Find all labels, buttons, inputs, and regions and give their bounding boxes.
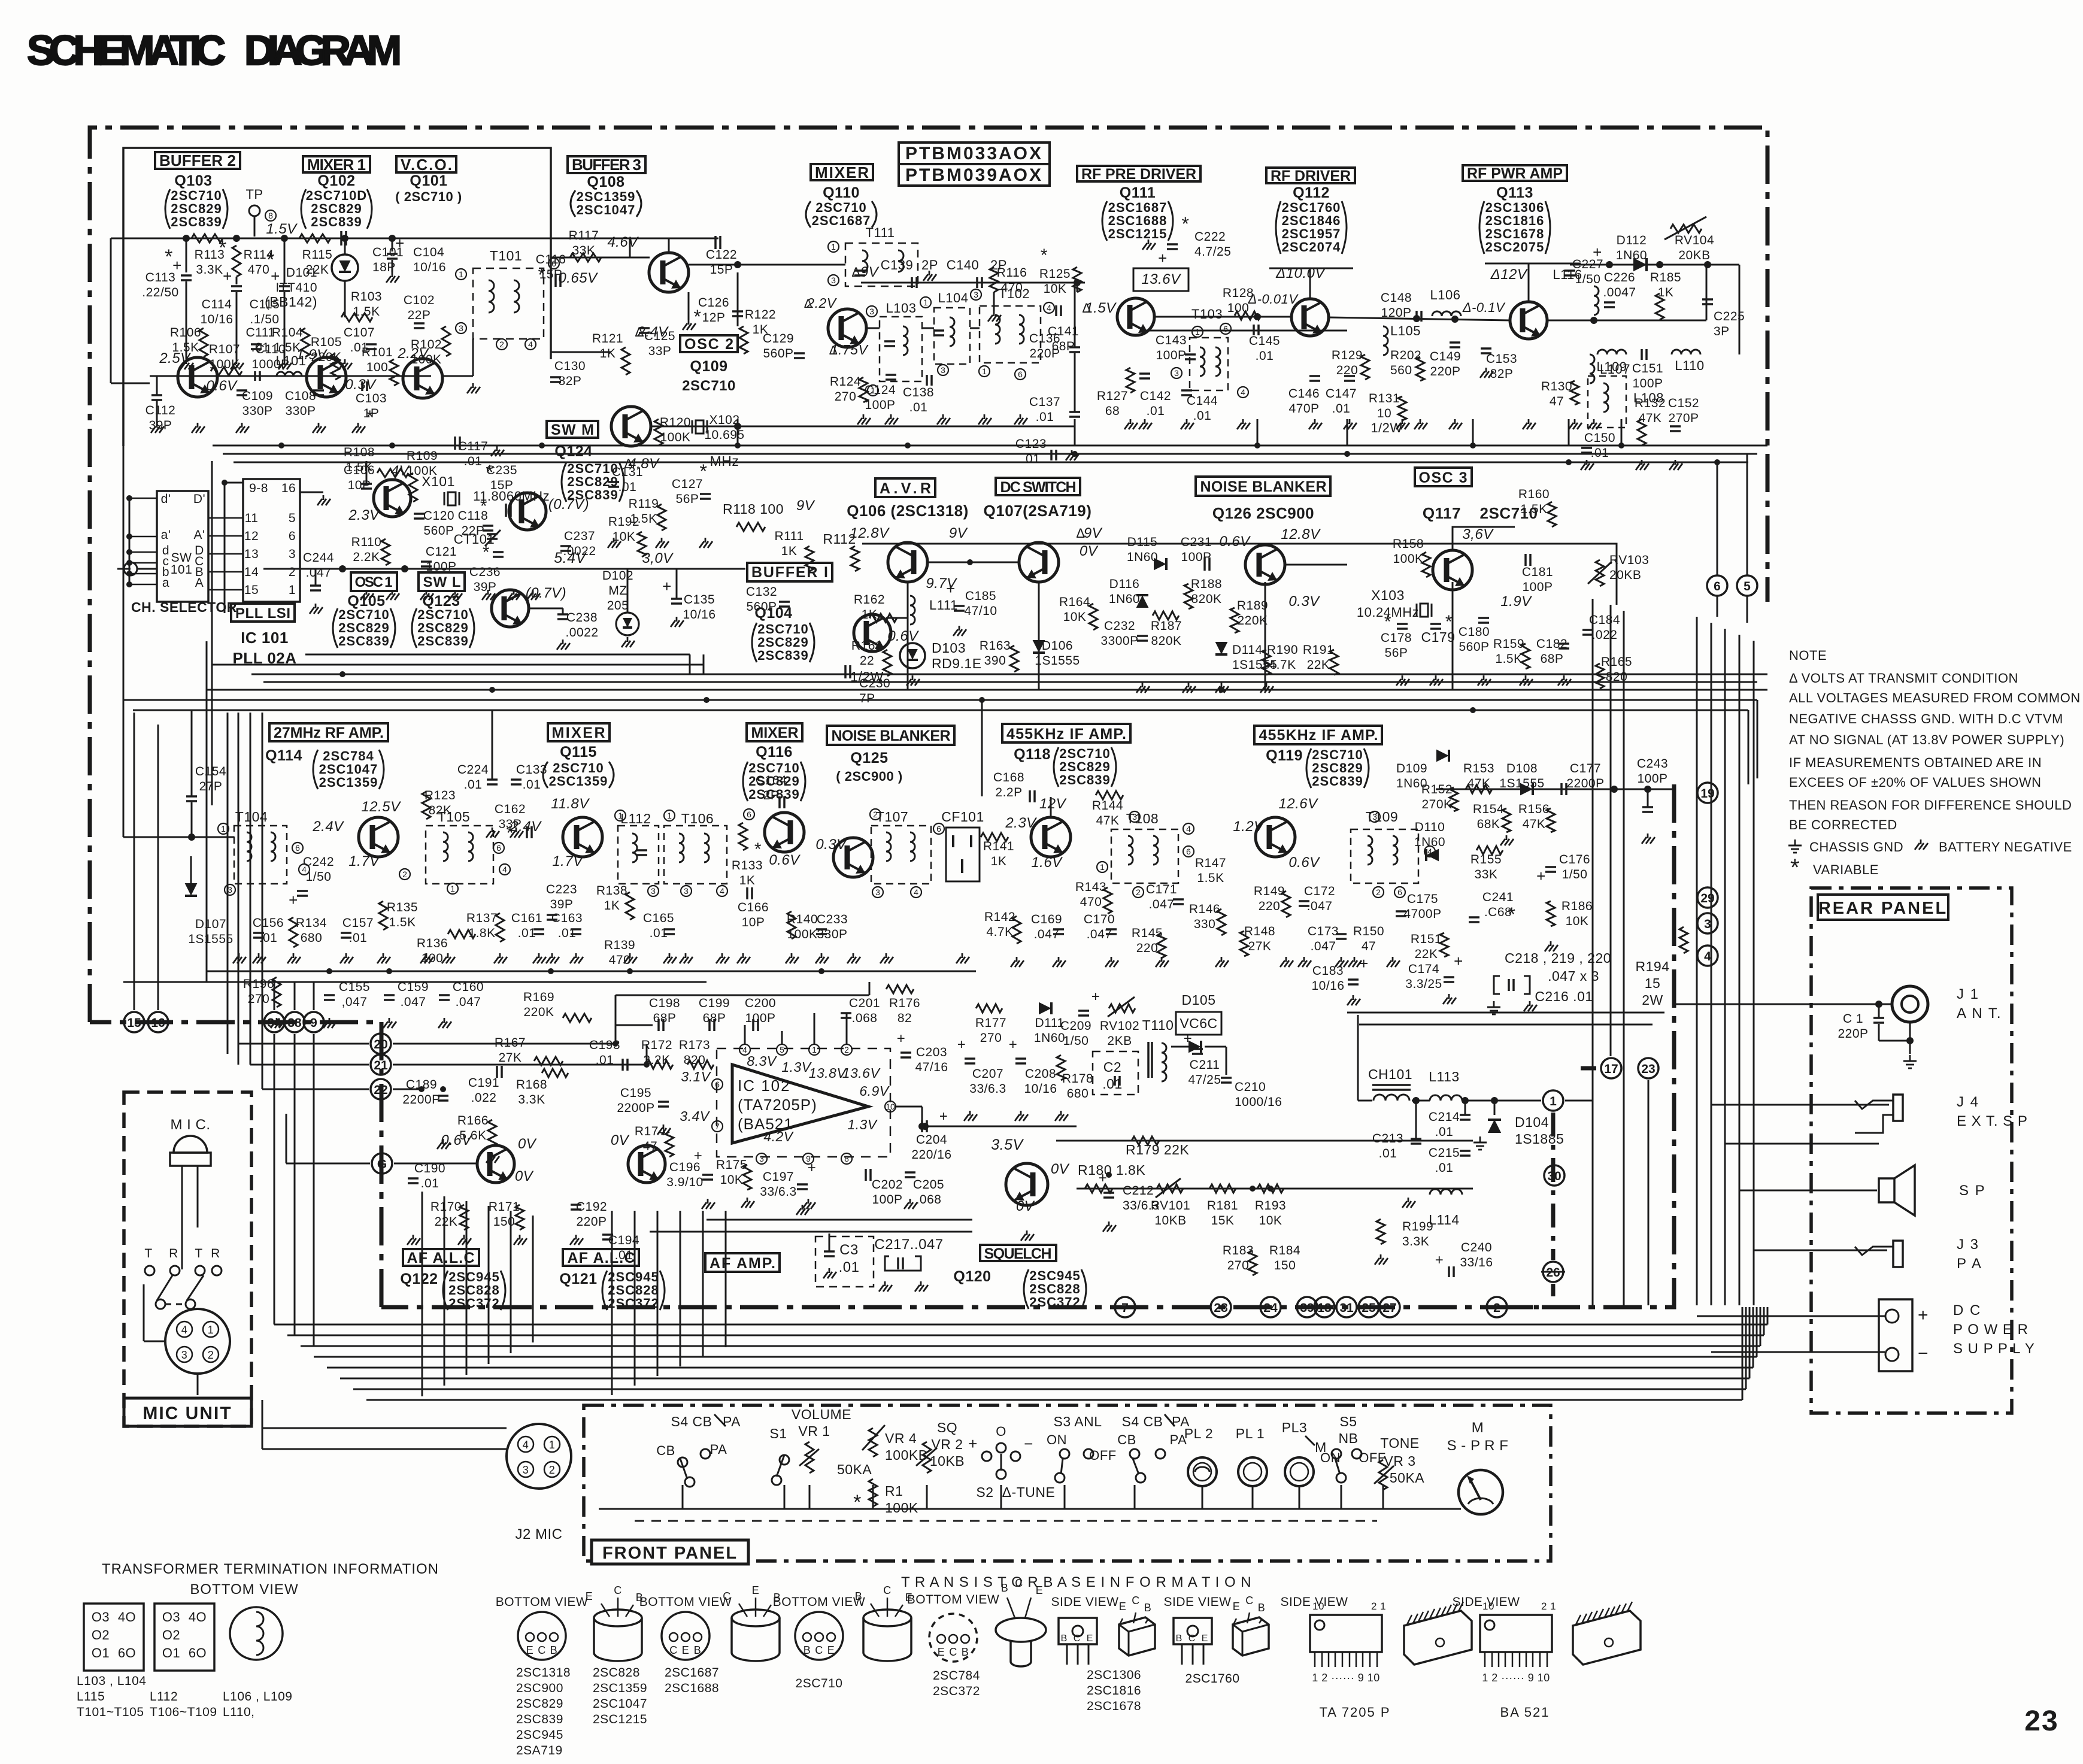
- PCB name PTBM039AOX: [899, 164, 1050, 186]
- svg-text:C: C: [1132, 1595, 1140, 1607]
- svg-text:+: +: [1918, 1305, 1929, 1325]
- capacitor C3 (dashed): [815, 1236, 874, 1287]
- svg-text:R156: R156: [1518, 802, 1550, 816]
- svg-text:D': D': [193, 492, 205, 506]
- ground: [1314, 419, 1316, 424]
- wire PLL top: [225, 482, 243, 484]
- svg-text:15: 15: [244, 583, 259, 597]
- svg-text:Q107(2SA719): Q107(2SA719): [984, 502, 1092, 520]
- junction: [126, 549, 132, 555]
- svg-text:560P: 560P: [423, 524, 454, 538]
- svg-text:27K: 27K: [499, 1051, 522, 1065]
- junction: [1618, 442, 1624, 448]
- svg-text:*: *: [853, 1491, 862, 1514]
- svg-text:2P: 2P: [921, 257, 938, 272]
- svg-text:R194: R194: [1636, 959, 1670, 974]
- svg-text:2SC839: 2SC839: [171, 214, 222, 229]
- ground: [1016, 957, 1018, 962]
- svg-text:RF DRIVER: RF DRIVER: [1271, 168, 1351, 184]
- svg-text:R187: R187: [1151, 619, 1182, 633]
- transistor Q118: [1031, 817, 1071, 857]
- svg-text:10: 10: [886, 1102, 895, 1111]
- ground: [186, 359, 187, 364]
- svg-text:47/16: 47/16: [915, 1060, 948, 1074]
- svg-text:VC6C: VC6C: [1180, 1016, 1217, 1031]
- svg-text:7: 7: [1121, 1301, 1129, 1315]
- wire under RF power to circled 6 5: [1717, 462, 1718, 575]
- ground: [1435, 675, 1437, 680]
- svg-text:390: 390: [984, 654, 1006, 668]
- svg-text:C152: C152: [1668, 396, 1699, 410]
- svg-text:23: 23: [1641, 1062, 1655, 1076]
- svg-text:+: +: [808, 1160, 817, 1176]
- svg-text:C157: C157: [342, 916, 374, 930]
- ground: [383, 953, 384, 958]
- ground: [538, 953, 540, 958]
- wire ic102 pins down: [744, 1025, 746, 1044]
- svg-text:MIXER: MIXER: [815, 163, 869, 181]
- svg-text:6: 6: [289, 529, 296, 543]
- svg-text:1K: 1K: [739, 874, 756, 887]
- ground: [532, 590, 534, 595]
- svg-text:3.3K: 3.3K: [196, 263, 223, 277]
- inductor L108: [1588, 376, 1626, 428]
- svg-text:12.5V: 12.5V: [361, 799, 401, 815]
- package TO-220 3d b: [1233, 1617, 1269, 1656]
- svg-text:TP: TP: [245, 187, 263, 202]
- svg-text:0V: 0V: [1080, 543, 1099, 559]
- ground: [442, 1139, 444, 1144]
- svg-text:C113: C113: [145, 271, 176, 284]
- svg-text:BUFFER 3: BUFFER 3: [572, 156, 641, 174]
- svg-text:D101: D101: [286, 266, 317, 280]
- wire: [1257, 419, 1259, 445]
- wire avr to dc switch: [927, 562, 1019, 563]
- svg-text:+: +: [172, 256, 182, 274]
- package cylinder 2: [732, 1610, 780, 1626]
- svg-text:A N T.: A N T.: [1957, 1005, 2002, 1022]
- svg-text:R202: R202: [1390, 348, 1421, 362]
- wire j2 mic feeds: [262, 1427, 507, 1429]
- svg-text:2.5V: 2.5V: [159, 350, 191, 366]
- wire: [287, 1335, 1764, 1336]
- svg-text:C184: C184: [1589, 613, 1620, 627]
- wire q109 row: [551, 351, 611, 353]
- svg-text:47: 47: [1362, 939, 1376, 953]
- svg-text:100P: 100P: [1181, 550, 1211, 564]
- svg-text:Q115: Q115: [560, 744, 597, 760]
- wire: [1452, 582, 1454, 690]
- svg-text:1.5K: 1.5K: [630, 512, 657, 526]
- svg-text:D107: D107: [195, 917, 226, 931]
- svg-text:10/16: 10/16: [413, 260, 446, 274]
- svg-text:C: C: [614, 1584, 622, 1596]
- svg-text:PL 1: PL 1: [1236, 1426, 1265, 1441]
- svg-text:1S1555: 1S1555: [1035, 654, 1080, 668]
- svg-text:2SC1359: 2SC1359: [549, 774, 608, 789]
- svg-text:C231: C231: [1181, 535, 1212, 549]
- wire: [1347, 419, 1348, 445]
- label MIC UNIT: [124, 1398, 251, 1426]
- svg-text:T101: T101: [490, 248, 522, 263]
- ground: [344, 359, 346, 364]
- wire: [1623, 611, 1625, 1305]
- svg-text:T102: T102: [999, 286, 1030, 301]
- package SIP 3d: [1404, 1611, 1472, 1665]
- wire q110 out: [1146, 330, 1347, 332]
- svg-text:T R A N S I S T O R B A: T R A N S I S T O R B A S E I N F O R M …: [901, 1574, 1252, 1590]
- wire audio feed risers: [615, 1025, 617, 1044]
- svg-text:E: E: [938, 1646, 945, 1658]
- ground: [276, 1018, 278, 1023]
- svg-text:5: 5: [780, 1045, 784, 1054]
- svg-text:470: 470: [609, 953, 631, 967]
- svg-text:0V: 0V: [518, 1136, 537, 1152]
- svg-text:.1/50: .1/50: [250, 313, 279, 326]
- svg-text:10P: 10P: [348, 478, 371, 492]
- svg-text:2SC839: 2SC839: [1059, 772, 1111, 787]
- svg-text:.068: .068: [852, 1011, 878, 1025]
- svg-text:39P: 39P: [474, 580, 497, 594]
- svg-text:3P: 3P: [1714, 325, 1730, 338]
- ground: [1392, 957, 1394, 962]
- svg-text:33/6.3: 33/6.3: [969, 1082, 1006, 1096]
- svg-text:2SC900: 2SC900: [516, 1681, 563, 1695]
- svg-text:*: *: [266, 248, 275, 271]
- transistor Q123: [492, 590, 529, 627]
- wire T104 in: [123, 836, 234, 838]
- svg-text:3: 3: [1174, 368, 1179, 378]
- svg-text:BOTTOM VIEW: BOTTOM VIEW: [639, 1595, 732, 1609]
- svg-text:2: 2: [499, 340, 504, 349]
- svg-text:BOTTOM VIEW: BOTTOM VIEW: [190, 1581, 298, 1598]
- svg-text:1N60: 1N60: [1109, 592, 1140, 606]
- wire: [1621, 419, 1623, 445]
- connections 6 5 top right: [1707, 575, 1727, 596]
- svg-text:12.8V: 12.8V: [850, 525, 890, 541]
- ground: [661, 538, 663, 542]
- wire q118 bias rail: [981, 700, 983, 796]
- svg-text:150: 150: [1274, 1259, 1296, 1272]
- block label NOISE BLANKER Q126: [1196, 477, 1330, 496]
- svg-text:C171: C171: [1146, 883, 1177, 896]
- svg-text:10/16: 10/16: [683, 608, 715, 622]
- connector J2 MIC: [507, 1424, 571, 1489]
- connection 28: [1211, 1297, 1231, 1317]
- svg-text:2W: 2W: [1642, 992, 1663, 1008]
- svg-text:3: 3: [181, 1349, 188, 1361]
- block label OSC 3: [1415, 468, 1472, 486]
- svg-text:C151: C151: [1632, 362, 1663, 375]
- svg-text:C133: C133: [516, 763, 547, 777]
- transistor Q102: [307, 357, 346, 397]
- svg-text:10P: 10P: [742, 916, 765, 929]
- svg-text:NOISE BLANKER: NOISE BLANKER: [832, 728, 951, 744]
- connection 39: [1297, 1297, 1317, 1317]
- svg-text:330P: 330P: [285, 404, 316, 418]
- svg-text:16: 16: [281, 481, 296, 495]
- svg-text:100K: 100K: [660, 431, 690, 444]
- block label NOISE BLANKER Q125: [827, 726, 954, 745]
- svg-text:C226: C226: [1604, 271, 1635, 284]
- svg-text:Δ-0.1V: Δ-0.1V: [1462, 300, 1506, 315]
- svg-text:.01: .01: [518, 926, 536, 940]
- svg-text:R164: R164: [1059, 595, 1090, 609]
- svg-text:(TA7205P): (TA7205P): [738, 1096, 817, 1114]
- svg-text:C205: C205: [913, 1178, 944, 1192]
- svg-text:2SC372: 2SC372: [608, 1296, 659, 1311]
- ground: [238, 953, 240, 958]
- svg-text:L113: L113: [1429, 1069, 1459, 1084]
- svg-text:C138: C138: [903, 386, 934, 399]
- wire: [1739, 635, 1741, 1305]
- svg-text:11: 11: [245, 511, 259, 525]
- svg-text:13: 13: [244, 547, 259, 561]
- ground: [984, 414, 986, 419]
- ground: [1483, 675, 1485, 680]
- svg-text:SCHEMATIC: SCHEMATIC: [27, 27, 226, 74]
- svg-text:O3: O3: [162, 1610, 180, 1624]
- svg-text:22K: 22K: [435, 1215, 458, 1229]
- svg-text:56P: 56P: [1385, 646, 1408, 660]
- junction: [489, 687, 495, 693]
- svg-text:T110: T110: [1142, 1017, 1174, 1033]
- connection 24: [1260, 1297, 1281, 1317]
- wire: [1299, 1485, 1300, 1509]
- svg-text:3: 3: [869, 307, 874, 316]
- svg-text:Q110: Q110: [823, 184, 860, 201]
- transformer package 1: [84, 1604, 144, 1671]
- svg-text:1: 1: [289, 583, 296, 597]
- svg-text:S1: S1: [769, 1426, 787, 1441]
- svg-text:101: 101: [171, 563, 193, 577]
- svg-text:D116: D116: [1109, 577, 1140, 591]
- wire: [1724, 629, 1726, 1305]
- svg-text:D112: D112: [1617, 234, 1647, 247]
- svg-text:10/16: 10/16: [1311, 979, 1344, 993]
- svg-text:d': d': [161, 492, 171, 506]
- svg-text:C: C: [815, 1644, 823, 1656]
- ground: [808, 1199, 809, 1204]
- svg-text:C172: C172: [1304, 884, 1335, 898]
- svg-text:Δ-TUNE: Δ-TUNE: [1002, 1484, 1056, 1500]
- svg-text:TONE: TONE: [1380, 1435, 1419, 1451]
- capacitor C114: [236, 277, 238, 284]
- svg-text:C185: C185: [965, 589, 996, 603]
- svg-text:33/16: 33/16: [1460, 1256, 1493, 1269]
- svg-text:C122: C122: [706, 248, 737, 262]
- junction: [627, 968, 633, 974]
- svg-text:L106 , L109: L106 , L109: [223, 1690, 292, 1704]
- svg-text:D C: D C: [1953, 1302, 1981, 1319]
- svg-text:M: M: [1472, 1420, 1484, 1436]
- svg-text:R166: R166: [457, 1114, 489, 1127]
- wire: [680, 1211, 681, 1366]
- svg-text:82: 82: [898, 1011, 912, 1025]
- svg-text:C131: C131: [612, 465, 643, 479]
- block label 455KHz IF AMP Q118: [1002, 724, 1130, 742]
- svg-text:ALL VOLTAGES MEASURED FROM COM: ALL VOLTAGES MEASURED FROM COMMON: [1789, 690, 2081, 705]
- wire top right rail: [1570, 264, 1739, 266]
- ground: [1111, 957, 1112, 962]
- svg-text:.047: .047: [456, 995, 481, 1009]
- svg-text:3.4V: 3.4V: [680, 1108, 710, 1124]
- svg-text:0V: 0V: [611, 1132, 630, 1148]
- svg-text:22: 22: [860, 654, 874, 668]
- block label RF DRIVER: [1266, 168, 1355, 183]
- svg-text:2200P: 2200P: [617, 1101, 654, 1115]
- svg-text:R106: R106: [170, 326, 201, 340]
- svg-text:.01: .01: [1332, 402, 1351, 416]
- junction: [1268, 1186, 1274, 1192]
- svg-text:6: 6: [936, 824, 941, 833]
- package SIP 3d b: [1573, 1611, 1641, 1665]
- svg-text:B C E: B C E: [1061, 1633, 1095, 1644]
- svg-text:.0022: .0022: [565, 626, 598, 639]
- wire 5.4V rail: [263, 568, 745, 570]
- svg-text:C165: C165: [643, 911, 674, 925]
- svg-text:2200P: 2200P: [402, 1093, 440, 1107]
- svg-text:BOTTOM VIEW: BOTTOM VIEW: [907, 1593, 999, 1607]
- svg-text:1.5K: 1.5K: [1520, 502, 1547, 516]
- svg-text:22K: 22K: [1415, 947, 1438, 961]
- ground: [942, 414, 944, 419]
- block label RF PWR AMP: [1463, 165, 1567, 181]
- svg-text:C210: C210: [1235, 1080, 1266, 1094]
- wire: [314, 1356, 1757, 1358]
- svg-text:*: *: [538, 264, 546, 286]
- svg-text:+: +: [939, 1108, 948, 1125]
- svg-text:2SC839: 2SC839: [311, 214, 362, 229]
- svg-text:2SC372: 2SC372: [933, 1684, 980, 1698]
- wire bus to 20/21/22: [238, 1043, 369, 1045]
- svg-text:REAR PANEL: REAR PANEL: [1818, 899, 1948, 918]
- svg-text:S4 CB: S4 CB: [1122, 1414, 1163, 1429]
- svg-text:47K: 47K: [1523, 817, 1546, 831]
- svg-text:R177: R177: [975, 1016, 1006, 1030]
- FRONT PANEL box: [584, 1405, 1551, 1561]
- svg-text:C180: C180: [1459, 625, 1490, 639]
- svg-text:R193: R193: [1255, 1199, 1286, 1213]
- svg-text:47/10: 47/10: [964, 604, 997, 618]
- wire left circles drop to bottom bundle: [274, 1034, 275, 1324]
- svg-text:4: 4: [528, 340, 533, 349]
- junction: [1714, 459, 1720, 465]
- svg-text:C132: C132: [746, 585, 777, 599]
- svg-text:CHASSIS GND: CHASSIS GND: [1809, 839, 1903, 854]
- svg-text:R148: R148: [1244, 925, 1275, 938]
- svg-text:PLL LSI: PLL LSI: [235, 605, 290, 622]
- svg-text:1: 1: [1550, 1095, 1557, 1108]
- junction: [183, 235, 190, 242]
- svg-text:L103: L103: [886, 301, 917, 316]
- svg-text:16: 16: [151, 1016, 165, 1030]
- svg-text:2SC710: 2SC710: [682, 378, 736, 394]
- svg-text:R109: R109: [407, 449, 438, 463]
- svg-text:Q111: Q111: [1120, 184, 1156, 201]
- svg-text:39: 39: [1300, 1301, 1314, 1315]
- junction: [704, 697, 710, 703]
- svg-text:RV103: RV103: [1609, 553, 1649, 567]
- wire: [611, 1211, 613, 1395]
- svg-text:4: 4: [181, 1324, 188, 1336]
- svg-text:S3 ANL: S3 ANL: [1054, 1414, 1102, 1429]
- coil package: [230, 1607, 283, 1660]
- junction: [1250, 1186, 1256, 1192]
- svg-text:B: B: [1144, 1602, 1152, 1614]
- wire: [809, 1485, 811, 1509]
- ground: [345, 953, 347, 958]
- svg-text:1.5V: 1.5V: [266, 221, 298, 237]
- svg-text:3.5V: 3.5V: [991, 1136, 1024, 1153]
- svg-text:Δ-0.01V: Δ-0.01V: [1247, 292, 1299, 307]
- svg-text:47: 47: [1550, 395, 1564, 408]
- front panel internal wires: [599, 1508, 1461, 1510]
- svg-text:C126: C126: [698, 296, 729, 310]
- wire RF rail: [1309, 268, 1311, 299]
- svg-text:1S1885: 1S1885: [1515, 1131, 1564, 1147]
- transistor Q119: [1256, 817, 1295, 857]
- REAR PANEL box: [1811, 888, 2012, 1413]
- svg-text:C200: C200: [745, 996, 776, 1010]
- svg-text:C233: C233: [817, 913, 848, 926]
- wire: [1341, 1485, 1342, 1509]
- svg-text:S4 CB: S4 CB: [671, 1414, 712, 1429]
- capacitor C101: [340, 231, 342, 245]
- svg-text:3.9/10: 3.9/10: [666, 1175, 703, 1189]
- ground: [392, 590, 393, 595]
- diode D101 ITT410: [332, 254, 358, 281]
- mic connector: [165, 1309, 230, 1374]
- transistor Q112: [1291, 299, 1329, 336]
- svg-text:R181: R181: [1207, 1199, 1238, 1213]
- junction: [419, 1086, 425, 1092]
- junction: [389, 235, 396, 242]
- svg-text:6: 6: [1714, 580, 1721, 593]
- svg-text:6.9V: 6.9V: [859, 1083, 890, 1099]
- svg-text:.01: .01: [349, 931, 368, 945]
- MIC UNIT box: [124, 1092, 251, 1426]
- svg-text:R155: R155: [1470, 853, 1502, 866]
- svg-text:X101: X101: [422, 474, 455, 489]
- connection 26: [1543, 1262, 1563, 1282]
- diode D104: [1488, 1120, 1501, 1133]
- svg-text:1.7V: 1.7V: [552, 853, 584, 869]
- junction: [1470, 442, 1476, 448]
- svg-text:C207: C207: [972, 1067, 1003, 1081]
- svg-text:C201: C201: [849, 996, 880, 1010]
- svg-text:C154: C154: [195, 765, 226, 778]
- wire 12.8V rail: [862, 543, 1473, 545]
- svg-text:Q113: Q113: [1496, 184, 1533, 201]
- transistor Q124a: [374, 480, 411, 517]
- svg-text:2SC828: 2SC828: [593, 1666, 640, 1680]
- junction: [1344, 451, 1350, 457]
- svg-text:2SC1678: 2SC1678: [1087, 1699, 1141, 1713]
- svg-text:L115: L115: [77, 1690, 105, 1704]
- svg-text:455KHz IF AMP.: 455KHz IF AMP.: [1006, 726, 1126, 742]
- transistor Q122: [477, 1145, 514, 1183]
- svg-text:2SC1816: 2SC1816: [1087, 1684, 1141, 1698]
- svg-text:+: +: [1435, 1252, 1444, 1268]
- svg-text:C142: C142: [1140, 389, 1171, 403]
- svg-text:.0047: .0047: [1603, 286, 1636, 299]
- svg-text:IC 102: IC 102: [738, 1077, 791, 1095]
- svg-text:C: C: [723, 1590, 731, 1602]
- svg-text:C: C: [883, 1584, 892, 1596]
- svg-text:SQ: SQ: [937, 1420, 957, 1435]
- svg-text:C192: C192: [576, 1200, 607, 1214]
